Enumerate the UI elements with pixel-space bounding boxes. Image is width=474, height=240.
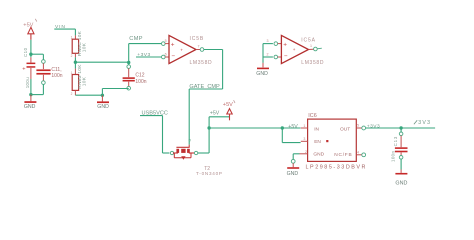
capacitor C10 (polarized) bbox=[22, 47, 35, 94]
wire op-amp output to gate bbox=[189, 50, 222, 145]
svg-text:GND: GND bbox=[287, 171, 299, 177]
svg-text:−: − bbox=[171, 53, 175, 60]
junction divider ground node bbox=[101, 94, 104, 97]
junction 3V3/C13 bbox=[399, 126, 402, 129]
wire IC6 GND pin bbox=[291, 154, 299, 163]
wire CMP net bbox=[129, 44, 162, 63]
svg-text:+5V: +5V bbox=[288, 124, 298, 130]
ground GND1 (below C10) bbox=[24, 95, 37, 110]
supply +5V P1 (top-left) bbox=[23, 19, 37, 40]
svg-text:OUT: OUT bbox=[340, 126, 350, 132]
wire EN branch bbox=[282, 128, 300, 143]
pin 5 OUT bbox=[356, 124, 365, 130]
resistor RN63 10K bbox=[72, 62, 87, 95]
svg-text:LM358D: LM358D bbox=[301, 60, 324, 66]
svg-text:+: + bbox=[180, 47, 183, 52]
svg-text:1: 1 bbox=[303, 124, 305, 128]
svg-text:+: + bbox=[293, 47, 296, 52]
svg-text:GND: GND bbox=[395, 180, 407, 186]
svg-text:IC5A: IC5A bbox=[301, 38, 316, 44]
capacitor C13 bbox=[391, 128, 408, 162]
pin 2 GND bbox=[300, 150, 308, 154]
svg-text:100n: 100n bbox=[391, 150, 396, 162]
wire +5V rail to IC6 bbox=[209, 127, 301, 129]
IC U6 regulator LP2985 bbox=[306, 113, 368, 170]
svg-text:C12: C12 bbox=[135, 73, 144, 79]
ground GND2 (divider) bbox=[97, 95, 109, 110]
label 3V3 bbox=[414, 120, 431, 126]
svg-text:C13: C13 bbox=[393, 136, 398, 146]
svg-text:T-0N340P: T-0N340P bbox=[196, 171, 223, 176]
svg-text:G: G bbox=[188, 139, 192, 142]
wire MOSFET drain to +5V rail bbox=[198, 117, 230, 153]
svg-text:3: 3 bbox=[303, 137, 305, 141]
resistor RN6C 10K bbox=[72, 30, 87, 62]
junction divider node bbox=[74, 61, 77, 64]
svg-text:3: 3 bbox=[267, 39, 269, 43]
wire divider node to CMP bbox=[75, 61, 128, 63]
svg-text:2: 2 bbox=[267, 52, 269, 56]
svg-text:+5V: +5V bbox=[210, 111, 220, 117]
wire USB5VCC bbox=[140, 116, 169, 153]
pin 4 NC/FB bbox=[356, 150, 365, 156]
svg-text:100n: 100n bbox=[51, 73, 62, 79]
svg-text:NC/FB: NC/FB bbox=[334, 152, 352, 158]
svg-text:CMP: CMP bbox=[129, 36, 143, 42]
svg-text:+5V: +5V bbox=[223, 102, 233, 108]
svg-text:100n: 100n bbox=[135, 79, 146, 85]
svg-text:10K: 10K bbox=[82, 76, 88, 86]
svg-text:1: 1 bbox=[71, 36, 73, 40]
svg-text:GATE_CMP: GATE_CMP bbox=[189, 84, 220, 90]
svg-text:+: + bbox=[283, 42, 287, 49]
svg-text:LP2985-33DBVR: LP2985-33DBVR bbox=[306, 164, 368, 170]
supply +5V P2 (near MOSFET) bbox=[223, 100, 235, 120]
wire divider bottom to ground bbox=[75, 94, 102, 96]
capacitor C11 bbox=[36, 54, 50, 94]
svg-text:6: 6 bbox=[165, 52, 167, 56]
pin 3 EN bbox=[301, 137, 308, 141]
svg-text:IC5B: IC5B bbox=[190, 36, 205, 42]
wire VIN bbox=[54, 29, 75, 35]
svg-text:+5V: +5V bbox=[23, 22, 33, 28]
svg-text:C10: C10 bbox=[23, 47, 28, 57]
wire +5V vertical bbox=[30, 40, 32, 54]
wire +3V3 stub bbox=[136, 56, 161, 58]
op-amp IC5B bbox=[162, 35, 213, 65]
op-amp IC5A bbox=[267, 35, 325, 65]
junction top of C10 bbox=[29, 53, 32, 56]
wire top connecting C10 and C11 bbox=[31, 53, 43, 55]
svg-text:IC6: IC6 bbox=[308, 113, 316, 119]
svg-text:LM358D: LM358D bbox=[190, 60, 213, 66]
wire C12 to ground bbox=[102, 89, 128, 96]
junction bottom of C10 bbox=[29, 93, 32, 96]
svg-text:3V3: 3V3 bbox=[418, 120, 431, 126]
svg-text:2: 2 bbox=[71, 92, 73, 96]
ground GND4 (IC6) bbox=[287, 163, 300, 177]
capacitor C12 bbox=[123, 63, 147, 90]
svg-text:+: + bbox=[171, 42, 175, 49]
svg-text:GND: GND bbox=[256, 71, 268, 77]
svg-text:10K: 10K bbox=[82, 42, 88, 52]
svg-text:2: 2 bbox=[305, 150, 307, 154]
transistor T2 (P-MOSFET) bbox=[170, 139, 222, 177]
svg-text:IN: IN bbox=[314, 126, 319, 132]
junction CMP/C12 bbox=[127, 61, 130, 64]
svg-text:100u: 100u bbox=[25, 77, 30, 89]
svg-text:+: + bbox=[22, 66, 25, 72]
svg-text:−: − bbox=[284, 53, 288, 60]
svg-text:4: 4 bbox=[357, 150, 359, 154]
wire bottom connecting C10 and C11 bbox=[31, 94, 43, 96]
svg-text:GND: GND bbox=[313, 152, 324, 158]
svg-text:1: 1 bbox=[310, 44, 312, 48]
svg-text:7: 7 bbox=[198, 45, 200, 49]
junction EN branch bbox=[281, 126, 284, 129]
svg-text:GND: GND bbox=[97, 104, 109, 110]
svg-text:GND: GND bbox=[24, 104, 36, 110]
svg-text:EN: EN bbox=[314, 139, 321, 145]
wire IC5A inputs tied bbox=[263, 44, 273, 63]
junction +5V rail bbox=[207, 126, 210, 129]
wire C13 to ground bbox=[400, 159, 402, 169]
ground GND3 (IC5A inputs) bbox=[256, 63, 269, 77]
ground GND5 (C13) bbox=[395, 170, 407, 187]
pin 1 IN bbox=[301, 124, 308, 128]
label C11 value bbox=[51, 67, 62, 79]
svg-text:2: 2 bbox=[71, 54, 73, 58]
svg-text:5: 5 bbox=[165, 39, 167, 43]
wire 3V3 rail bbox=[366, 127, 436, 129]
svg-text:5: 5 bbox=[357, 124, 359, 128]
